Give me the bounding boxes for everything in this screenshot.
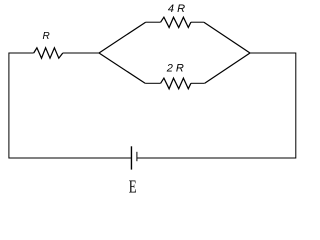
svg-text:4 R: 4 R [168,3,185,15]
svg-text:E: E [129,178,137,197]
svg-text:2 R: 2 R [166,63,184,75]
svg-text:R: R [43,31,50,42]
